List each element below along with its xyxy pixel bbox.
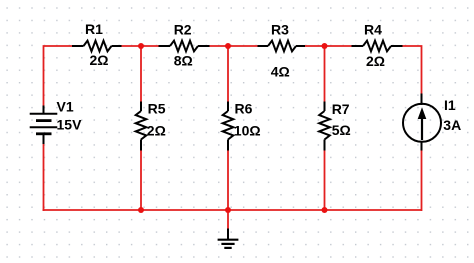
wire branch R6 lower: [227, 150, 229, 212]
resistor R7: [319, 102, 330, 151]
junction node A top R5: [138, 43, 144, 49]
svg-text:R1: R1: [85, 21, 103, 37]
wire bottom rail: [43, 209, 422, 211]
wire branch R7 lower: [324, 150, 326, 212]
svg-text:2Ω: 2Ω: [147, 123, 166, 139]
current source I1: [403, 94, 441, 151]
battery V1: [30, 106, 58, 145]
wire top rail segment R4 to right corner: [402, 46, 422, 94]
wire top rail segment node1 to R1: [44, 46, 74, 106]
wire top rail segment R1 to node A: [122, 45, 161, 47]
svg-text:3A: 3A: [443, 117, 461, 133]
wire top rail segment R2 to R3: [209, 45, 260, 47]
svg-text:R5: R5: [148, 101, 166, 117]
svg-text:4Ω: 4Ω: [271, 64, 290, 80]
wire top rail segment R3 to R4: [304, 45, 353, 47]
junction node D bottom R5: [138, 207, 144, 213]
resistor R1: [72, 41, 122, 52]
junction node B top R6: [225, 43, 231, 49]
wire right branch below I1: [421, 150, 423, 211]
svg-text:5Ω: 5Ω: [332, 122, 351, 138]
ground: [218, 229, 239, 248]
resistor R3: [258, 41, 306, 52]
svg-text:8Ω: 8Ω: [174, 53, 193, 69]
svg-text:10Ω: 10Ω: [234, 123, 261, 139]
junction node C top R7: [322, 43, 328, 49]
svg-text:R6: R6: [235, 101, 253, 117]
svg-text:R4: R4: [364, 22, 382, 38]
svg-text:2Ω: 2Ω: [366, 53, 385, 69]
svg-text:V1: V1: [57, 98, 74, 114]
svg-text:R3: R3: [271, 22, 289, 38]
resistor R2: [159, 41, 210, 52]
resistor R6: [223, 102, 234, 151]
junction node F bottom R7: [322, 207, 328, 213]
svg-text:2Ω: 2Ω: [90, 52, 109, 68]
wire ground stem: [227, 210, 229, 229]
svg-text:R7: R7: [332, 101, 350, 117]
wire branch R6 upper: [227, 45, 229, 103]
svg-text:15V: 15V: [57, 117, 83, 133]
resistor R5: [136, 102, 147, 151]
svg-text:R2: R2: [174, 22, 192, 38]
resistor R4: [352, 41, 403, 52]
wire branch R7 upper: [324, 45, 326, 103]
wire branch R5 upper: [140, 45, 142, 103]
wire left branch below V1: [43, 144, 45, 212]
junction node E bottom R6 ground: [225, 207, 231, 213]
wire branch R5 lower: [140, 150, 142, 212]
svg-text:I1: I1: [444, 97, 456, 113]
